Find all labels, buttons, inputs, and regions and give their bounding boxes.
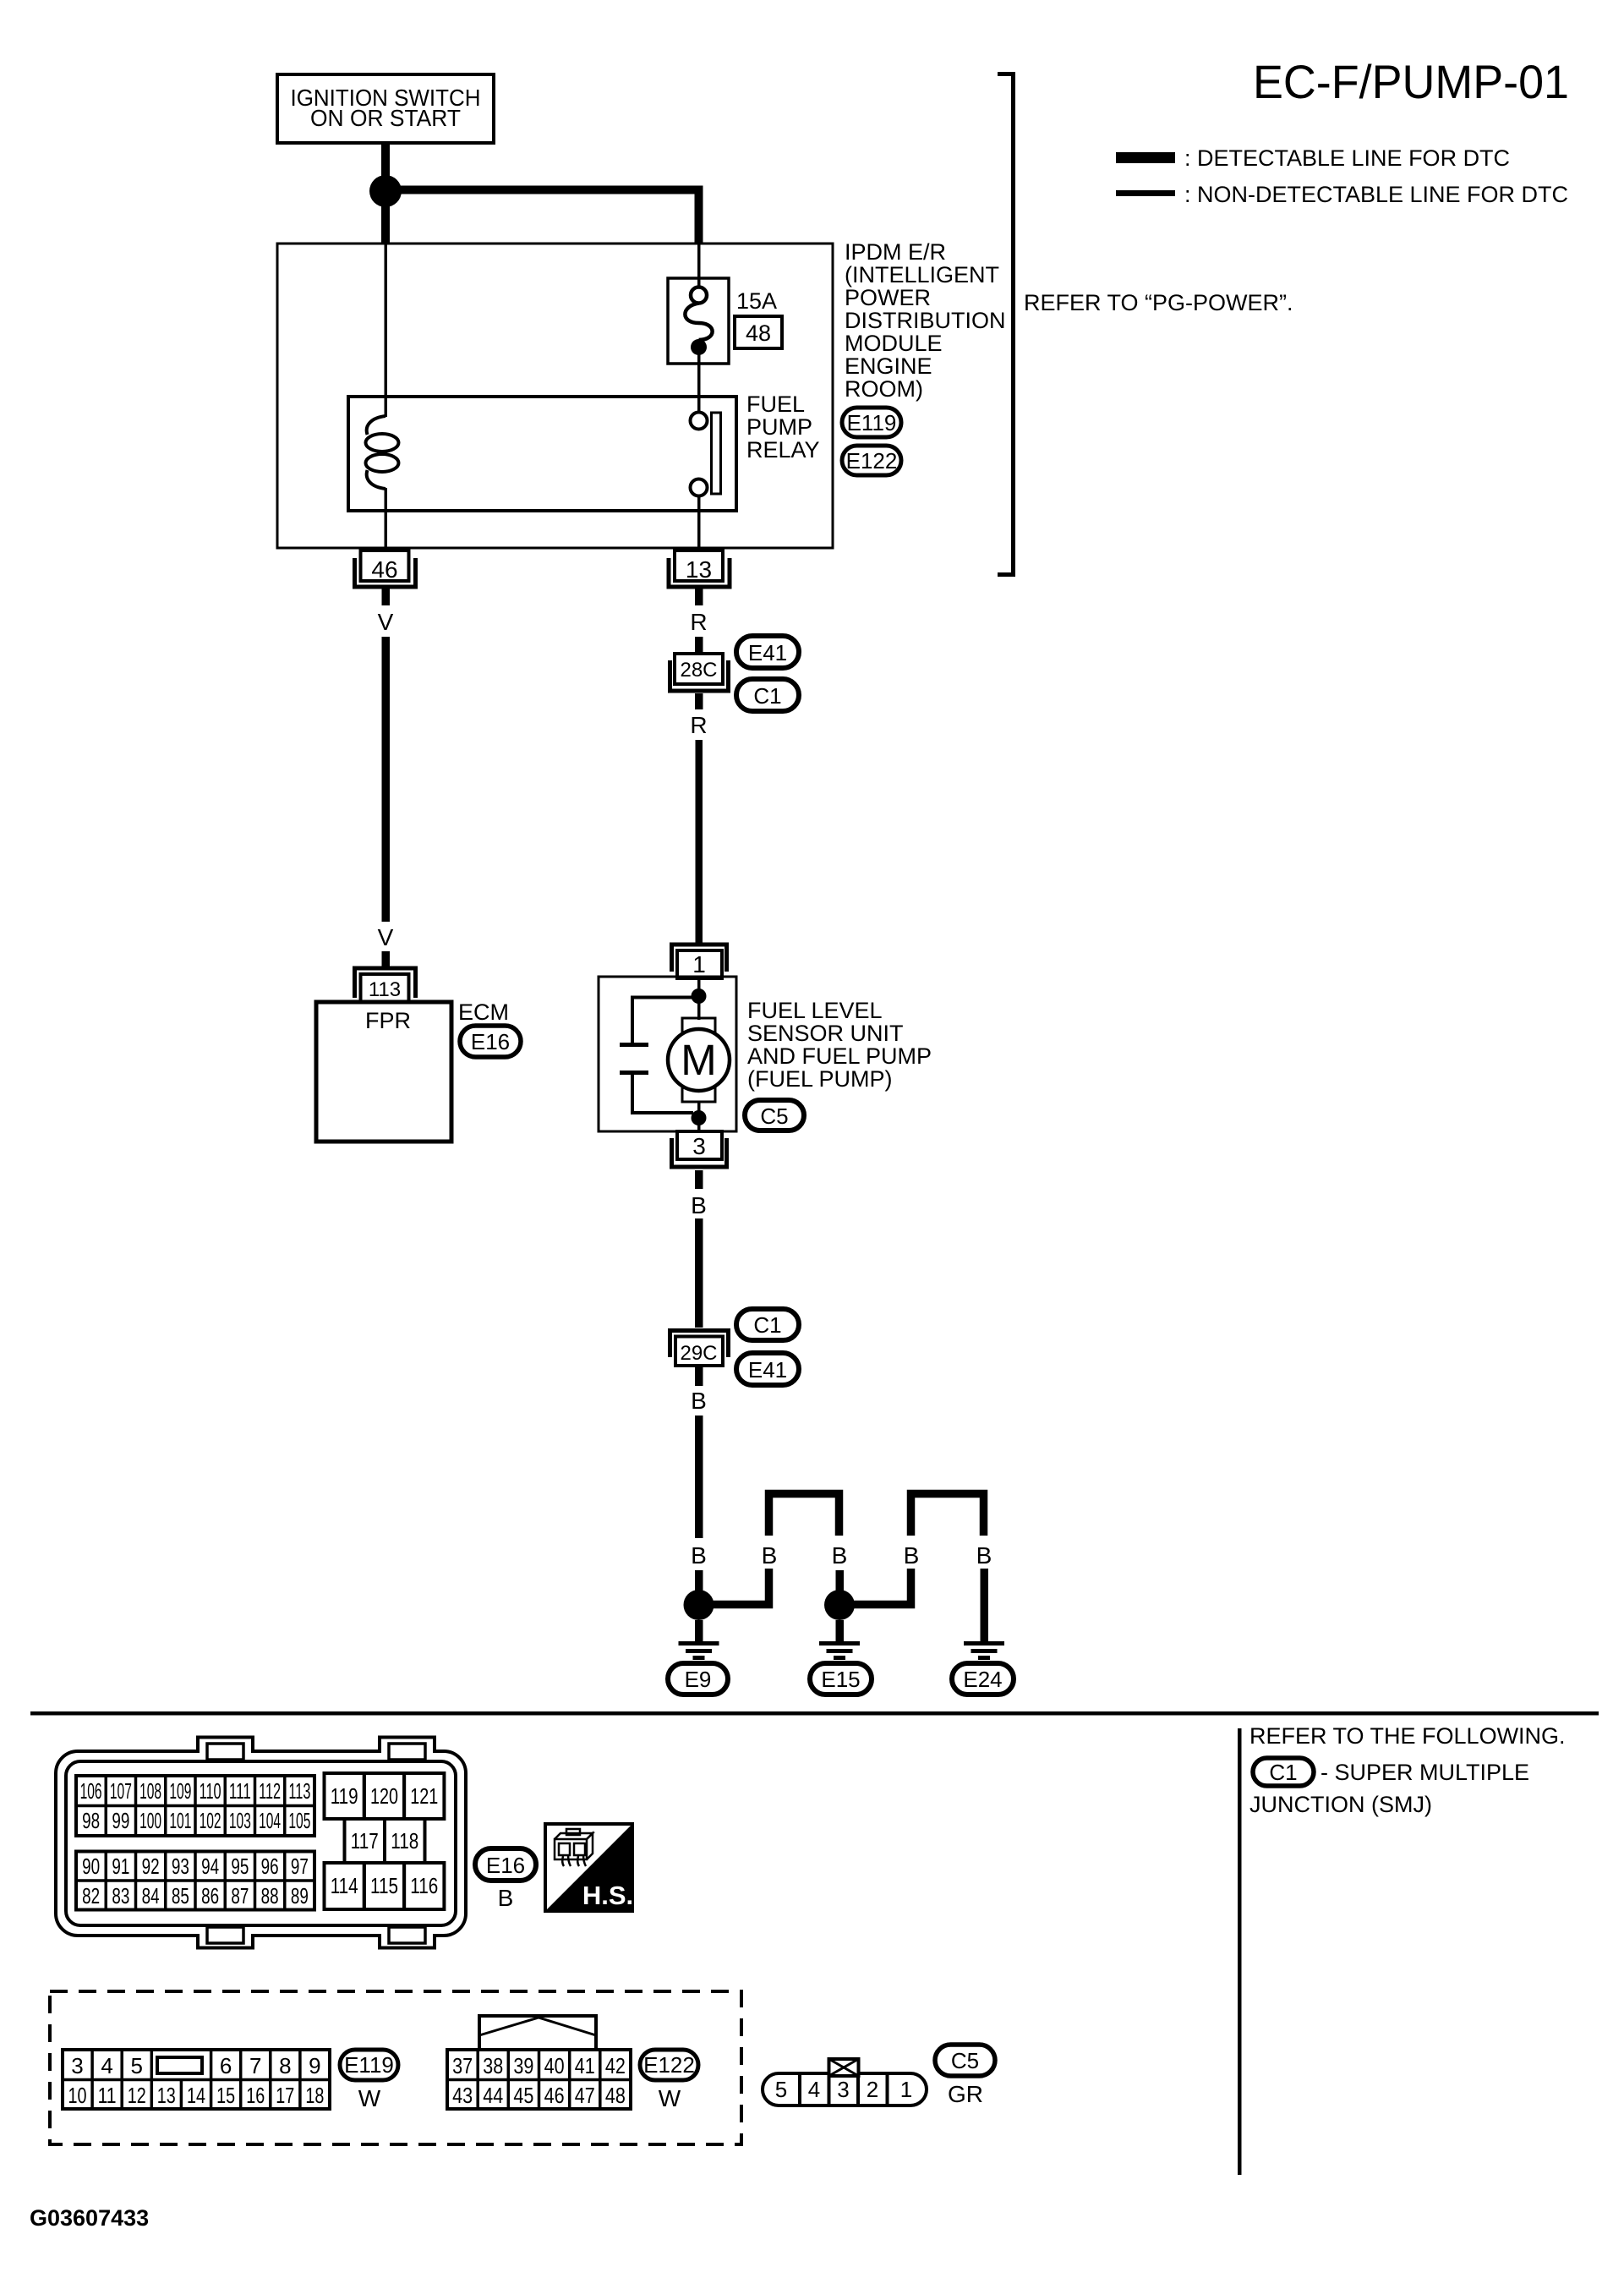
svg-text:1: 1 [692,951,706,977]
svg-text:5: 5 [775,2077,787,2102]
IPDM E/R box [277,244,833,548]
svg-text:B: B [904,1542,920,1569]
separator line [30,1711,1599,1716]
svg-text:16: 16 [246,2083,265,2108]
fuse element [685,279,712,364]
ECM pin numbers 98-105 [82,1808,310,1833]
node E9 junction dot [684,1590,714,1620]
ECM pin numbers 106-113 [80,1778,311,1804]
svg-text:ECM: ECM [458,999,509,1025]
connector E15 oval label [810,1663,872,1695]
ECM pin numbers right block [331,1783,439,1898]
connector E122 oval label [640,2050,698,2080]
svg-text:117: 117 [351,1828,379,1854]
wire col4 into E15 dot [854,1569,911,1605]
ECM pin numbers 90-97 [82,1854,309,1879]
connector E119 oval label [340,2050,398,2080]
wire stub below 13 [695,588,703,605]
svg-text:E119: E119 [847,410,897,435]
svg-text:MODULE: MODULE [845,331,943,356]
ECM pin cell 120 [364,1773,404,1819]
svg-text:- SUPER MULTIPLE: - SUPER MULTIPLE [1321,1760,1529,1785]
ground symbol E24 [964,1644,1004,1658]
svg-text:E16: E16 [471,1029,510,1054]
svg-text:E15: E15 [821,1667,860,1692]
connector pin 1 [672,945,727,978]
connector E9 oval label [668,1663,728,1695]
svg-text:45: 45 [513,2083,533,2108]
svg-text:87: 87 [231,1883,249,1908]
svg-text:102: 102 [200,1808,221,1833]
connector E119 oval label [842,408,901,437]
svg-text:118: 118 [391,1828,418,1854]
svg-text:114: 114 [331,1873,358,1898]
svg-text:10: 10 [68,2083,87,2108]
wire V to ECM [382,637,391,922]
connector E122 oval label [842,446,901,475]
E122 pin numbers row2 [452,2083,626,2108]
ECM pin cell 121 [404,1773,444,1819]
legend non-detectable bar [1116,190,1175,196]
connector pin 3 [672,1131,727,1167]
svg-text:82: 82 [82,1883,100,1908]
svg-text:84: 84 [142,1883,160,1908]
svg-text:101: 101 [169,1808,191,1833]
svg-text:12: 12 [128,2083,146,2108]
svg-text:91: 91 [112,1854,129,1879]
svg-text:37: 37 [452,2053,473,2078]
ECM connector E16 outer shell [56,1751,466,1936]
ECM pin cell 117 [345,1819,385,1863]
svg-text:AND FUEL PUMP: AND FUEL PUMP [747,1043,932,1069]
ECM pin numbers 82-89 [82,1883,309,1908]
svg-text:C1: C1 [753,1312,781,1338]
connector C5 oval label [745,1100,804,1131]
svg-text:48: 48 [605,2083,626,2108]
connector E41 oval label lower [736,1353,799,1385]
svg-text:E24: E24 [963,1667,1002,1692]
C5 pin numbers [775,2077,912,2102]
svg-text:POWER: POWER [845,285,931,310]
svg-text:ON OR START: ON OR START [310,105,461,131]
vertical divider line [1238,1728,1242,2175]
svg-text:B: B [762,1542,778,1569]
node junction dot [369,175,402,207]
E119 pin numbers row1 [71,2053,320,2078]
connector pin 113 [355,968,416,1002]
svg-text:99: 99 [112,1808,129,1833]
svg-text:8: 8 [279,2053,291,2078]
connector E16 oval label [460,1026,521,1057]
svg-text:15A: 15A [736,288,777,314]
svg-text:4: 4 [808,2077,820,2102]
svg-text:E9: E9 [685,1667,712,1692]
svg-text:92: 92 [142,1854,160,1879]
svg-text:W: W [358,2085,381,2111]
svg-text:108: 108 [139,1778,161,1804]
ignition switch box [277,74,494,143]
ECM pin cell 114 [325,1863,364,1909]
connector 28C SMJ [670,654,729,691]
svg-text:106: 106 [80,1778,102,1804]
connector C1 oval label lower [736,1309,799,1340]
svg-text:15: 15 [216,2083,235,2108]
ECM pin cell 119 [325,1773,364,1819]
svg-text:97: 97 [291,1854,309,1879]
ECM connector bottom tab right [379,1927,435,1948]
label FUEL PUMP RELAY [746,392,820,463]
svg-text:B: B [832,1542,848,1569]
svg-text:46: 46 [371,556,397,583]
connector C1 oval label [736,679,799,711]
wire E9 dot to ground [695,1620,703,1642]
svg-text:SENSOR UNIT: SENSOR UNIT [747,1021,904,1046]
svg-text:90: 90 [82,1854,100,1879]
svg-text:B: B [498,1885,514,1911]
fuel level sensor branch [620,998,698,1114]
svg-text:W: W [659,2085,681,2111]
svg-text:93: 93 [172,1854,189,1879]
svg-text:(INTELLIGENT: (INTELLIGENT [845,262,999,287]
wire ignition to junction [381,143,390,180]
label FUEL LEVEL SENSOR UNIT [747,998,932,1092]
svg-text:RELAY: RELAY [746,437,820,463]
svg-text:98: 98 [82,1808,100,1833]
svg-text:96: 96 [261,1854,279,1879]
svg-text:DISTRIBUTION: DISTRIBUTION [845,308,1006,333]
svg-text:C1: C1 [753,683,781,709]
node E15 junction dot [824,1590,855,1620]
connector pin 46 [355,550,416,587]
connector E24 oval label [952,1663,1014,1695]
wire stub below 28C [695,693,703,709]
svg-text:E122: E122 [846,448,898,474]
wire R to 28C [695,637,703,654]
wire junction to right branch [390,190,699,244]
dashed option box [50,1991,741,2144]
svg-text:4: 4 [101,2053,112,2078]
svg-text:3: 3 [837,2077,849,2102]
svg-text:43: 43 [452,2083,473,2108]
svg-text:109: 109 [169,1778,191,1804]
svg-text:IPDM E/R: IPDM E/R [845,239,946,265]
svg-text:FUEL: FUEL [746,392,805,417]
H.S. view icon box [545,1824,633,1911]
ECM connector top tab left [197,1738,253,1761]
wire col2 into E9 dot [713,1569,769,1605]
svg-text:REFER TO “PG-POWER”.: REFER TO “PG-POWER”. [1024,290,1293,315]
connector C5 oval label [935,2045,995,2076]
svg-text:B: B [691,1192,707,1218]
svg-text:FPR: FPR [365,1008,411,1033]
svg-text:14: 14 [187,2083,205,2108]
svg-text:88: 88 [261,1883,279,1908]
fuel pump motor [668,1003,730,1112]
svg-text:107: 107 [110,1778,132,1804]
svg-text:E41: E41 [748,1357,787,1383]
wire stub below 46 [382,588,391,605]
svg-text:86: 86 [201,1883,219,1908]
svg-text:6: 6 [220,2053,232,2078]
svg-text:V: V [378,924,394,950]
wire stub above 113 [382,951,391,967]
svg-text:7: 7 [249,2053,261,2078]
svg-text:E119: E119 [344,2052,394,2078]
svg-text:B: B [691,1542,707,1569]
svg-text:38: 38 [483,2053,503,2078]
svg-text:2: 2 [867,2077,878,2102]
svg-text:95: 95 [231,1854,249,1879]
svg-text:115: 115 [370,1873,398,1898]
wire inside IPDM left [385,244,388,397]
E119 keyway rect [157,2057,202,2073]
connector pin 13 [669,550,730,587]
wire inside IPDM right to fuse [697,244,701,279]
svg-text:: NON-DETECTABLE LINE FOR DTC: : NON-DETECTABLE LINE FOR DTC [1184,182,1568,207]
fuse number 48 box [735,316,782,348]
ground symbol E15 [819,1644,860,1658]
svg-text:103: 103 [229,1808,251,1833]
wire col3 to E15 dot [836,1570,845,1591]
fuel pump relay box [348,397,736,511]
svg-text:11: 11 [98,2083,117,2108]
svg-text:C1: C1 [1269,1760,1297,1785]
svg-text:3: 3 [71,2053,83,2078]
wire relay to IPDM bottom left [385,511,388,550]
svg-text:120: 120 [370,1783,398,1809]
connector E122 pin grid [447,2050,631,2109]
svg-text:41: 41 [575,2053,595,2078]
svg-text:105: 105 [288,1808,310,1833]
ECM pin grid lower-left block [76,1852,314,1910]
svg-text:18: 18 [305,2083,324,2108]
relay contact [691,413,721,496]
svg-text:B: B [976,1542,992,1569]
svg-text:3: 3 [692,1133,706,1159]
E122 pin numbers row1 [452,2053,626,2078]
svg-text:G03607433: G03607433 [30,2205,149,2231]
svg-text:110: 110 [200,1778,221,1804]
svg-text:40: 40 [544,2053,565,2078]
svg-text:B: B [691,1388,707,1414]
ground bridge 1 [769,1494,839,1536]
svg-text:E16: E16 [486,1853,525,1878]
svg-text:94: 94 [201,1854,219,1879]
svg-text:13: 13 [686,556,712,583]
svg-text:ENGINE: ENGINE [845,353,932,379]
svg-text:C5: C5 [760,1103,788,1129]
wire R to fuel pump [696,740,703,943]
svg-text:E41: E41 [748,640,787,665]
H.S. connector mini icon [555,1829,593,1866]
svg-text:44: 44 [483,2083,503,2108]
svg-text:119: 119 [331,1783,358,1809]
wire pin1 to node [697,978,701,991]
svg-text:116: 116 [410,1873,438,1898]
svg-text:C5: C5 [951,2048,979,2073]
svg-text:R: R [690,712,707,738]
svg-text:V: V [378,609,394,635]
svg-text:: DETECTABLE LINE FOR DTC: : DETECTABLE LINE FOR DTC [1184,145,1510,171]
svg-text:39: 39 [513,2053,533,2078]
ECM pin cell 115 [364,1863,404,1909]
svg-text:113: 113 [288,1778,310,1804]
svg-text:GR: GR [948,2081,983,2107]
svg-text:ROOM): ROOM) [845,376,923,402]
svg-text:FUEL LEVEL: FUEL LEVEL [747,998,883,1023]
ground symbol E9 [679,1644,719,1658]
svg-text:83: 83 [112,1883,129,1908]
E119 pin numbers row2 [68,2083,325,2108]
C5 keyway bowtie [829,2059,859,2076]
ECM connector bottom tab left [197,1927,253,1948]
wire fuse to relay contact [697,364,701,412]
svg-text:42: 42 [605,2053,626,2078]
svg-text:(FUEL PUMP): (FUEL PUMP) [747,1066,893,1092]
connector E119 pin grid [63,2050,330,2109]
wire relay to IPDM bottom right [697,496,701,550]
svg-text:47: 47 [575,2083,595,2108]
svg-text:JUNCTION (SMJ): JUNCTION (SMJ) [1249,1792,1432,1817]
node fuel pump top junction [692,988,707,1004]
wire E15 dot to ground [836,1620,845,1642]
ECM box [316,1002,451,1142]
svg-text:9: 9 [309,2053,320,2078]
connector C5 pill [763,2073,927,2106]
svg-text:REFER TO THE FOLLOWING.: REFER TO THE FOLLOWING. [1249,1723,1566,1749]
legend detectable bar [1116,152,1175,163]
svg-text:29C: 29C [680,1342,717,1365]
connector C1 oval note [1253,1758,1314,1786]
svg-text:100: 100 [139,1808,161,1833]
svg-text:28C: 28C [680,659,717,682]
svg-text:112: 112 [259,1778,281,1804]
wire junction down to IPDM [381,205,390,244]
wire node to box bottom [697,1125,701,1131]
connector E16 oval label bottom [475,1848,536,1881]
node fuel pump bottom junction [692,1110,707,1125]
ECM pin grid upper-left block [76,1776,314,1836]
ECM pin cell 118 [385,1819,425,1863]
ECM connector E16 inner shell [66,1761,456,1925]
label IPDM E/R description [845,239,1006,402]
wire stub below 29C [695,1367,703,1386]
svg-text:121: 121 [410,1783,438,1809]
svg-text:113: 113 [369,978,401,1001]
wire col5 to ground [981,1569,989,1642]
svg-text:1: 1 [900,2077,912,2102]
svg-text:17: 17 [276,2083,294,2108]
relay coil [366,397,399,511]
ECM pin cell 116 [404,1863,444,1909]
svg-text:13: 13 [157,2083,176,2108]
svg-text:104: 104 [259,1808,281,1833]
svg-text:R: R [690,609,707,635]
bracket refer to PG-POWER [998,74,1014,575]
fuse 15A box [668,278,729,364]
connector E122 roof mark [479,2016,596,2050]
wire B long to ground row [695,1416,703,1538]
wire stub below 3 [695,1170,703,1189]
connector E41 oval label [736,636,799,668]
svg-text:85: 85 [172,1883,189,1908]
ECM connector top tab right [379,1738,435,1761]
svg-text:111: 111 [229,1778,251,1804]
svg-text:48: 48 [746,320,771,346]
svg-text:M: M [681,1036,716,1084]
connector 29C SMJ [670,1331,729,1366]
wire B to 29C [695,1218,703,1328]
svg-text:EC-F/PUMP-01: EC-F/PUMP-01 [1253,55,1569,108]
svg-text:5: 5 [130,2053,142,2078]
svg-text:89: 89 [291,1883,309,1908]
ground bridge 2 [911,1494,984,1536]
svg-text:PUMP: PUMP [746,414,812,440]
svg-text:E122: E122 [643,2052,695,2078]
svg-text:46: 46 [544,2083,565,2108]
fuel pump unit box [599,977,736,1131]
wire col1 to E9 dot [695,1570,703,1591]
svg-text:H.S.: H.S. [582,1881,633,1910]
